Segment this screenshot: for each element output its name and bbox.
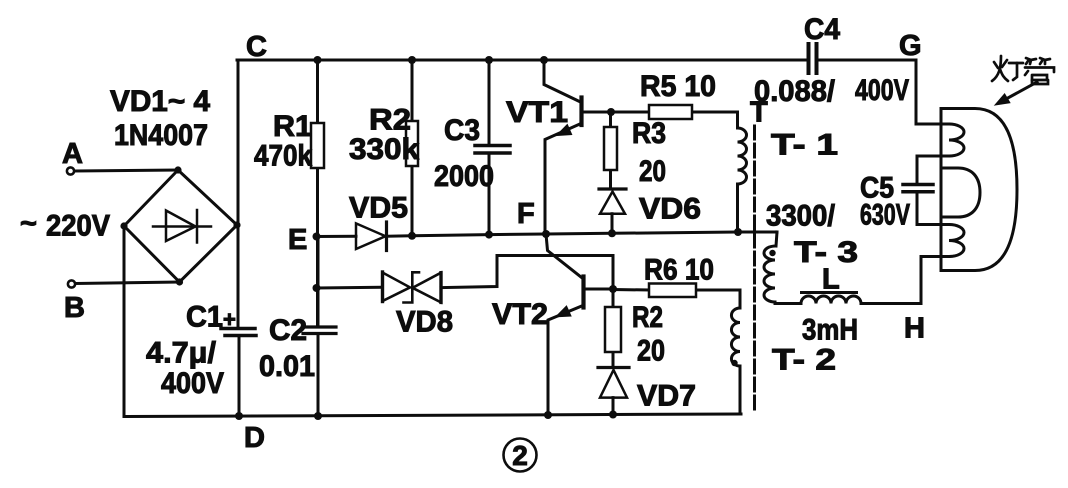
svg-text:G: G [899, 30, 922, 62]
resistor R2 lower wires [612, 289, 615, 307]
label L underline [800, 291, 858, 294]
node top rail R2 [408, 56, 416, 64]
svg-text:20: 20 [639, 155, 666, 188]
svg-text:T- 2: T- 2 [772, 344, 836, 377]
bridge rectifier VD1-4 diamond [124, 170, 237, 282]
svg-text:C3: C3 [444, 114, 480, 147]
svg-text:2000: 2000 [434, 160, 494, 193]
svg-text:0.01: 0.01 [259, 350, 315, 383]
node top rail VT1 [540, 56, 548, 64]
svg-text:R2: R2 [369, 104, 411, 137]
transistor VT2 emitter [548, 306, 583, 416]
svg-text:L: L [822, 264, 840, 296]
wire C1 bottom to D rail [238, 336, 241, 416]
transistor VT2 base wire [584, 288, 614, 291]
node bridge bottom [176, 278, 183, 285]
svg-text:VD5: VD5 [349, 192, 408, 225]
transistor VT1 base bar [579, 98, 583, 126]
wire C4 to G corner [818, 60, 950, 124]
resistor R3 body [604, 127, 617, 170]
node T-1 bottom [734, 228, 742, 236]
capacitor C4 plates [809, 44, 817, 73]
svg-text:C1: C1 [186, 301, 223, 334]
node D rail VT2 [544, 411, 552, 419]
resistor R5 body [649, 105, 692, 119]
label lamp chinese dengguan [992, 56, 1054, 84]
svg-text:B: B [64, 292, 85, 324]
svg-text:VD1~ 4: VD1~ 4 [110, 85, 210, 118]
lamp tube outline [941, 109, 1017, 271]
node T-2 polarity dot [731, 360, 737, 366]
svg-text:R6 10: R6 10 [644, 254, 714, 287]
svg-text:A: A [62, 138, 83, 170]
svg-text:VT1: VT1 [506, 96, 568, 129]
node VD8 left [313, 284, 321, 292]
svg-text:1N4007: 1N4007 [114, 119, 208, 152]
svg-text:R2: R2 [632, 301, 663, 334]
wire L to H to lamp [861, 257, 949, 304]
wire A to bridge top [75, 170, 179, 171]
wire D rail [124, 414, 741, 417]
svg-text:400V: 400V [161, 367, 224, 400]
svg-text:C: C [246, 31, 267, 63]
resistor R6 body [649, 284, 696, 298]
node bridge right [233, 221, 240, 228]
node VT1 base [607, 108, 615, 116]
svg-text:E: E [288, 224, 307, 256]
resistor R2 lower body [605, 307, 621, 352]
node C3 bottom [485, 231, 493, 239]
svg-text:+: + [223, 307, 236, 332]
node VD5-R2 [408, 232, 416, 240]
resistor R6 wires [613, 288, 649, 292]
capacitor C2 plates [303, 327, 336, 334]
resistor R2 body [406, 121, 418, 166]
wire B to bridge bottom [76, 282, 180, 284]
wire T-3 to L rail [775, 302, 801, 305]
svg-text:3mH: 3mH [802, 314, 858, 347]
capacitor C5 plates [903, 185, 933, 192]
capacitor C3 plates [475, 146, 510, 154]
transistor VT2 base bar [581, 277, 585, 308]
node A terminal [67, 167, 74, 174]
capacitor C2 wires [317, 237, 320, 327]
svg-text:T- 1: T- 1 [771, 129, 838, 162]
bridge inner diode [153, 210, 211, 243]
diode VD6 [599, 187, 626, 190]
transistor VT2 collector [546, 234, 584, 279]
transistor VT1 base wire [582, 111, 612, 114]
diac VD8 left wire [317, 286, 383, 290]
svg-text:C4: C4 [804, 13, 840, 46]
transformer core dashed line [753, 126, 756, 409]
diac VD8 symbol [383, 272, 442, 303]
arrow to lamp [1007, 82, 1037, 99]
diode VD7 [598, 366, 629, 369]
svg-text:220V: 220V [46, 210, 110, 243]
transformer T-2 winding [731, 308, 740, 366]
wire bridge left vertex down to D rail [123, 226, 126, 417]
svg-text:470k: 470k [254, 140, 312, 173]
lamp filament top [949, 124, 964, 156]
lamp filament bottom [949, 225, 964, 257]
node VD6 bottom [608, 229, 616, 237]
capacitor C1 plates [221, 329, 256, 336]
resistor R1 body [311, 123, 324, 168]
wire left vertical rail C to C1 [237, 60, 240, 327]
node D rail C2 [314, 412, 322, 420]
resistor R5 wires [611, 111, 649, 114]
svg-text:R5 10: R5 10 [640, 70, 716, 103]
node bridge top [174, 166, 181, 173]
svg-text:20: 20 [637, 335, 665, 368]
figure number circled 2 [504, 439, 537, 472]
transistor VT1 emitter [545, 124, 581, 235]
svg-text:R1: R1 [273, 110, 312, 143]
diode VD5 [356, 223, 386, 249]
lamp inner wall [941, 168, 980, 217]
node top rail R1 [314, 56, 322, 64]
resistor R1 vertical wires [316, 60, 319, 123]
node T-3 polarity dot [769, 250, 775, 256]
node B terminal [68, 280, 75, 287]
resistor R2 vertical wires [411, 60, 414, 121]
transformer T-3 winding [776, 232, 777, 246]
wire E-F rail right [387, 232, 777, 236]
svg-text:C2: C2 [269, 314, 307, 347]
resistor R3 wires [609, 112, 612, 127]
svg-text:400V: 400V [855, 74, 909, 107]
node top rail C3 [485, 56, 493, 64]
node bridge left [120, 222, 127, 229]
svg-text:R3: R3 [632, 117, 666, 150]
svg-text:VD7: VD7 [637, 380, 696, 413]
svg-text:4.7μ/: 4.7μ/ [146, 337, 217, 370]
svg-text:3300/: 3300/ [766, 200, 836, 233]
inductor L coil [801, 296, 861, 304]
wire top rail C to C4 [237, 59, 808, 62]
node E [313, 233, 321, 241]
capacitor C5 wires [917, 156, 949, 184]
svg-text:H: H [904, 313, 925, 345]
svg-text:~: ~ [20, 208, 37, 240]
svg-text:VD8: VD8 [396, 306, 453, 339]
svg-text:VT2: VT2 [492, 298, 548, 331]
svg-text:F: F [517, 198, 535, 230]
node D rail C1 [235, 412, 243, 420]
svg-text:T: T [750, 97, 768, 129]
transformer T-1 winding [738, 128, 747, 184]
node F [542, 230, 550, 238]
svg-text:VD6: VD6 [639, 193, 701, 226]
wire E-F rail left [317, 235, 357, 238]
diac VD8 right wire up and over [441, 256, 613, 290]
svg-text:330k: 330k [349, 133, 419, 166]
svg-text:D: D [244, 422, 265, 454]
capacitor C3 wires [488, 60, 491, 145]
node D rail VD7 [609, 411, 617, 419]
transistor VT1 collector [544, 60, 582, 103]
node VT2 base [609, 285, 617, 293]
svg-text:C5: C5 [860, 172, 894, 205]
svg-text:2: 2 [512, 440, 528, 471]
